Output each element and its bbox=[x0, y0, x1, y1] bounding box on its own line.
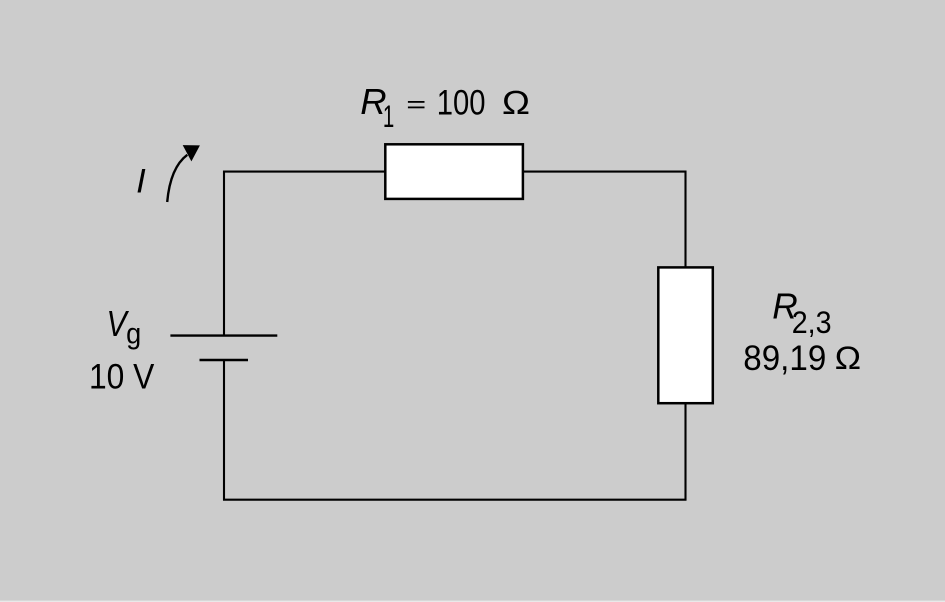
svg-text:89,19: 89,19 bbox=[743, 339, 826, 378]
resistor R1 bbox=[385, 144, 523, 199]
wire right lower segment bbox=[684, 402, 686, 500]
svg-text:Ω: Ω bbox=[834, 340, 861, 377]
label R2,3 bbox=[772, 286, 831, 340]
label R2,3 value bbox=[743, 339, 861, 378]
current arrow I bbox=[167, 145, 200, 202]
label 10 V bbox=[89, 358, 155, 397]
wire top-left segment bbox=[223, 171, 385, 173]
wire bottom segment bbox=[223, 499, 687, 501]
wire left lower segment bbox=[223, 360, 225, 500]
svg-text:I: I bbox=[136, 162, 146, 200]
wire left upper segment bbox=[223, 171, 225, 336]
svg-text:g: g bbox=[126, 317, 141, 350]
svg-text:100: 100 bbox=[437, 83, 486, 122]
svg-text:2,3: 2,3 bbox=[792, 306, 832, 340]
wire top-right segment bbox=[522, 171, 687, 173]
label Vg bbox=[107, 304, 142, 350]
label R1 value bbox=[360, 81, 530, 134]
resistor R2,3 bbox=[658, 267, 713, 403]
svg-text:Ω: Ω bbox=[502, 84, 531, 122]
battery Vg bbox=[170, 336, 277, 360]
wire right upper segment bbox=[684, 171, 686, 268]
svg-text:10 V: 10 V bbox=[89, 358, 155, 397]
svg-text:1: 1 bbox=[383, 98, 394, 134]
